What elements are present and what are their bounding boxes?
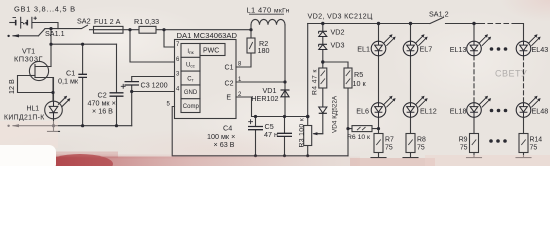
svg-text:GB1 3,8...4,5 В: GB1 3,8...4,5 В <box>14 5 76 14</box>
svg-text:EL48: EL48 <box>532 106 549 115</box>
svg-text:E: E <box>226 94 231 101</box>
svg-text:C2: C2 <box>225 81 234 88</box>
svg-text:КИПД21П-К: КИПД21П-К <box>4 115 45 122</box>
svg-text:PWC: PWC <box>203 47 219 54</box>
svg-text:VD2, VD3 КС212Ц: VD2, VD3 КС212Ц <box>308 11 373 20</box>
svg-text:SA1.2: SA1.2 <box>429 10 449 19</box>
svg-text:EL18: EL18 <box>450 106 467 115</box>
svg-text:0,1 мк: 0,1 мк <box>58 77 79 86</box>
svg-text:R4 47 к: R4 47 к <box>312 69 319 95</box>
svg-text:VD4 КД522А: VD4 КД522А <box>332 95 339 133</box>
svg-text:R1 0,33: R1 0,33 <box>134 17 159 26</box>
svg-text:СВЕТУ: СВЕТУ <box>495 69 527 79</box>
svg-text:R6 10 к: R6 10 к <box>347 134 370 141</box>
svg-text:12 В: 12 В <box>7 79 16 94</box>
svg-text:75: 75 <box>460 145 468 152</box>
svg-text:HER102: HER102 <box>251 94 278 103</box>
svg-text:SA1.1: SA1.1 <box>45 29 65 38</box>
svg-text:FU1 2 А: FU1 2 А <box>94 17 121 26</box>
svg-text:75: 75 <box>385 145 393 152</box>
svg-text:EL13: EL13 <box>450 45 467 54</box>
svg-text:SA2: SA2 <box>77 16 91 25</box>
svg-text:VD3: VD3 <box>331 41 345 50</box>
svg-text:EL12: EL12 <box>420 106 437 115</box>
svg-text:EL6: EL6 <box>356 106 369 115</box>
svg-text:C3 1200: C3 1200 <box>141 81 168 90</box>
svg-text:R3 100 к: R3 100 к <box>299 118 306 148</box>
svg-text:GND: GND <box>184 90 198 96</box>
svg-text:EL43: EL43 <box>532 45 549 54</box>
svg-text:47 н: 47 н <box>264 130 278 139</box>
svg-text:R5: R5 <box>354 70 363 79</box>
svg-text:R9: R9 <box>459 137 468 144</box>
svg-text:DA1 MC34063АD: DA1 MC34063АD <box>177 31 238 40</box>
svg-text:L1 470 мкГн: L1 470 мкГн <box>247 6 290 15</box>
svg-text:EL7: EL7 <box>420 45 433 54</box>
svg-text:HL1: HL1 <box>27 106 40 113</box>
svg-text:Cт: Cт <box>187 76 194 82</box>
svg-text:10 к: 10 к <box>353 79 367 88</box>
svg-text:Comp: Comp <box>183 104 200 110</box>
svg-text:C1: C1 <box>225 65 234 72</box>
svg-text:75: 75 <box>417 145 425 152</box>
svg-text:Uсс: Uсс <box>186 63 196 69</box>
svg-text:× 63 В: × 63 В <box>214 140 235 149</box>
svg-text:VD2: VD2 <box>331 28 345 37</box>
svg-text:R7: R7 <box>385 137 394 144</box>
svg-text:× 16 В: × 16 В <box>92 107 113 116</box>
svg-text:R8: R8 <box>417 137 426 144</box>
svg-text:Iпк: Iпк <box>187 49 194 55</box>
svg-text:R14: R14 <box>530 137 543 144</box>
svg-text:EL1: EL1 <box>357 45 370 54</box>
svg-text:КП303Г: КП303Г <box>14 55 43 64</box>
svg-text:75: 75 <box>530 145 538 152</box>
svg-text:180: 180 <box>258 46 270 55</box>
